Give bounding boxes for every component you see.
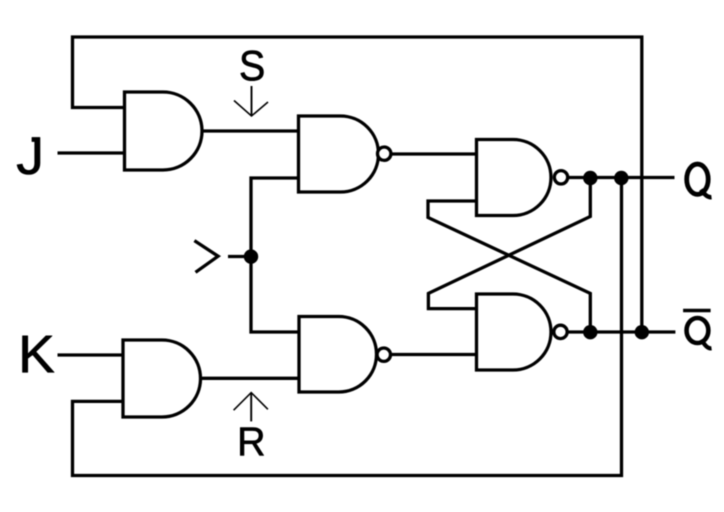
wire clock stub — [228, 255, 251, 258]
label Qbar output — [687, 318, 712, 348]
wire clock distribution: U3 lower input, vertical, U4 upper input — [251, 178, 301, 332]
and-gate U1 (J) — [125, 92, 203, 170]
label R net — [240, 428, 263, 456]
nand-gate U4 body (R gate) — [299, 317, 377, 393]
arrow R (points up at R net) — [234, 393, 268, 422]
wire Q output — [568, 176, 675, 179]
bubble U4 output — [377, 348, 390, 361]
wire U3 output to U5 — [392, 152, 477, 155]
wire Qbar output — [568, 330, 675, 333]
nand-gate U6 body (Qbar latch) — [477, 294, 552, 370]
wire Qbar feedback loop: J-gate upper input, left riser, top run, right riser down to Qbar node — [73, 37, 642, 332]
overbar of Qbar label — [683, 309, 711, 313]
bubble U6 output — [554, 325, 567, 338]
label S net — [241, 51, 264, 81]
junction dot clock node — [244, 249, 258, 263]
junction dot Qbar node 2 — [635, 325, 649, 339]
wire U1 output to U3 — [202, 129, 299, 132]
nand-gate U5 body (Q latch) — [477, 140, 551, 216]
wire K input — [58, 353, 125, 356]
label J input — [17, 137, 40, 174]
bubble U3 output — [378, 147, 391, 160]
arrow S (points down at S net) — [234, 86, 268, 116]
wire cross-couple Q to U6 upper input — [428, 178, 590, 309]
bubble U5 output — [554, 171, 567, 184]
wire Q feedback loop: K-gate lower input, left riser, bottom run, inner right riser up to Q node — [73, 178, 622, 476]
wire cross-couple Qbar to U5 lower input — [428, 201, 590, 332]
nand-gate U3 body (S gate) — [299, 116, 379, 192]
junction dot Qbar node 1 — [583, 325, 597, 339]
junction dot Q node 2 — [614, 171, 628, 185]
label K input — [23, 336, 55, 372]
and-gate U2 (K) — [123, 340, 201, 417]
junction dot Q node 1 — [583, 171, 597, 185]
wire U2 output to U4 — [201, 377, 301, 380]
clock chevron symbol — [194, 241, 218, 273]
wire J input — [58, 151, 127, 154]
wire U4 output to U6 — [391, 353, 477, 356]
label Q output — [687, 164, 712, 197]
